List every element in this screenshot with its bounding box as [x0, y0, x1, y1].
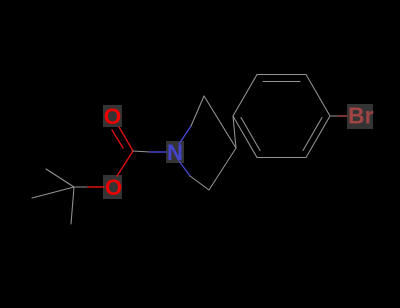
benzene ring edge TR-R — [306, 75, 330, 117]
benzene inner double bond line (BL-L edge) — [241, 118, 260, 151]
wire: azetidine C2 to C3 — [204, 96, 236, 148]
wire: phenyl to Br (bromine half maroon) — [338, 115, 347, 117]
benzene ring edge TL-TR (top) — [257, 74, 306, 76]
wire: methyl down-left — [32, 187, 74, 198]
wire: N to azetidine C4 (carbon half gray) — [190, 176, 209, 190]
svg-text:Br: Br — [348, 103, 374, 129]
wire: carbonyl C to ester O (red) — [117, 151, 133, 176]
benzene ring edge BL-L — [233, 116, 257, 158]
wire: N to azetidine C2 (blue half) — [179, 126, 191, 144]
benzene ring edge R-BR — [306, 116, 330, 158]
wire: phenyl to Br (carbon half gray) — [330, 115, 338, 117]
svg-text:N: N — [167, 140, 183, 165]
benzene inner double bond line (R-BR edge) — [303, 118, 322, 151]
carbonyl C=O double bond line 2 (red) — [112, 130, 123, 148]
wire: methyl down — [71, 187, 74, 224]
label box for Br — [347, 104, 373, 129]
carbonyl C=O double bond line 1 (red) — [119, 127, 133, 151]
label box for carbonyl O — [103, 105, 122, 127]
wire: azetidine C4 to C3 — [209, 148, 236, 190]
wire: N to azetidine C2 (carbon half gray) — [191, 96, 204, 126]
wire: carbonyl C to N (carbon half gray) — [133, 151, 150, 152]
svg-text:O: O — [105, 175, 122, 200]
wire: N to azetidine C4 (blue half) — [179, 161, 190, 176]
benzene ring edge L-TL — [233, 75, 257, 117]
wire: ester O to qC (oxygen half red) — [88, 186, 104, 188]
wire: azetidine C3 to phenyl ipso — [233, 116, 236, 148]
label box for ester O — [103, 175, 122, 199]
wire: carbonyl C to N (nitrogen half blue) — [150, 151, 166, 153]
wire: qC to ester O (carbon half gray) — [74, 186, 88, 188]
label box for N — [166, 141, 184, 163]
svg-text:O: O — [104, 104, 122, 129]
benzene inner double bond line (top edge) — [263, 81, 300, 83]
benzene ring edge BR-BL (bottom) — [257, 157, 306, 159]
wire: methyl C-H3 up-left — [46, 169, 74, 187]
